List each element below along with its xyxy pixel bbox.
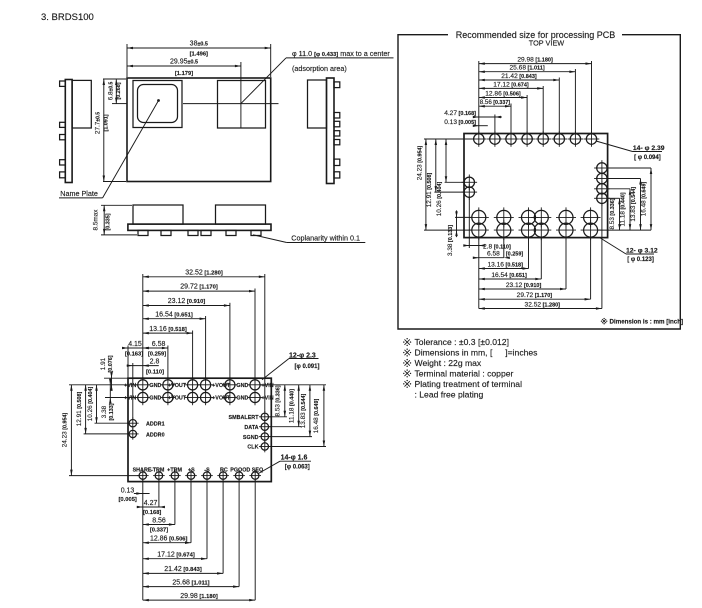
svg-text:SGND: SGND	[243, 435, 259, 441]
svg-text:+VOUT: +VOUT	[212, 396, 231, 402]
svg-text:[0.110]: [0.110]	[146, 370, 164, 376]
svg-text:Name Plate: Name Plate	[60, 189, 98, 198]
svg-text:GND: GND	[236, 383, 248, 389]
svg-text:+VOUT: +VOUT	[212, 383, 231, 389]
svg-text:12.91 [0.508]: 12.91 [0.508]	[426, 173, 433, 208]
svg-text:14-φ 1.6: 14-φ 1.6	[281, 455, 308, 462]
svg-text:(adsorption area): (adsorption area)	[292, 64, 347, 73]
svg-text:Coplanarity within 0.1: Coplanarity within 0.1	[291, 234, 360, 243]
svg-text:: Lead free plating: : Lead free plating	[415, 389, 484, 399]
svg-text:[0.168]: [0.168]	[143, 510, 161, 516]
svg-text:8.5max: 8.5max	[93, 209, 100, 231]
svg-text:PGOOD: PGOOD	[230, 467, 250, 473]
svg-text:+S: +S	[188, 467, 195, 473]
svg-text:10.26 [0.404]: 10.26 [0.404]	[87, 387, 94, 422]
svg-text:-S: -S	[204, 467, 210, 473]
svg-text:10.26 [0.404]: 10.26 [0.404]	[436, 182, 443, 217]
svg-text:1.91: 1.91	[100, 357, 107, 370]
svg-text:16.48 [0.649]: 16.48 [0.649]	[313, 399, 320, 434]
svg-text:RC: RC	[220, 467, 228, 473]
svg-text:25.68 [1.011]: 25.68 [1.011]	[172, 579, 209, 586]
svg-text:+VIN: +VIN	[124, 383, 136, 389]
svg-text:29.95±0.5: 29.95±0.5	[170, 59, 198, 66]
svg-text:8.53 [0.336]: 8.53 [0.336]	[275, 385, 282, 416]
svg-text:12- φ 3.12: 12- φ 3.12	[626, 247, 658, 254]
svg-text:0.13 [0.005]: 0.13 [0.005]	[444, 119, 476, 126]
svg-text:+VIN: +VIN	[124, 396, 136, 402]
svg-text:2.8: 2.8	[150, 358, 160, 365]
svg-text:13.16 [0.518]: 13.16 [0.518]	[487, 262, 523, 269]
svg-text:38±0.5: 38±0.5	[190, 41, 208, 48]
svg-text:23.12 [0.910]: 23.12 [0.910]	[168, 298, 206, 305]
svg-text:4.15: 4.15	[128, 341, 142, 348]
svg-text:3.38 [0.133]: 3.38 [0.133]	[447, 225, 454, 256]
svg-text:4.27 [0.168]: 4.27 [0.168]	[444, 110, 476, 117]
svg-text:4.27: 4.27	[144, 500, 158, 507]
svg-text:29.72 [1.170]: 29.72 [1.170]	[180, 284, 218, 291]
svg-text:SEQ: SEQ	[252, 467, 263, 473]
svg-text:[ φ 0.123]: [ φ 0.123]	[627, 257, 654, 263]
svg-text:SHARE: SHARE	[133, 467, 152, 473]
svg-text:12.86 [0.506]: 12.86 [0.506]	[150, 536, 188, 543]
svg-text:16.54 [0.651]: 16.54 [0.651]	[155, 312, 193, 319]
svg-text:[0.163]: [0.163]	[125, 352, 143, 358]
svg-text:+VOUT: +VOUT	[168, 383, 187, 389]
svg-text:[0.259]: [0.259]	[506, 252, 524, 258]
svg-text:32.52 [1.280]: 32.52 [1.280]	[185, 269, 223, 276]
svg-text:+VOUT: +VOUT	[168, 396, 187, 402]
svg-text:6.58: 6.58	[152, 341, 166, 348]
svg-text:[0.076]: [0.076]	[108, 355, 114, 372]
svg-text:Dimensions in mm, [ ]=inches: Dimensions in mm, [ ]=inches	[415, 348, 538, 358]
svg-text:[ φ 0.094]: [ φ 0.094]	[634, 155, 661, 161]
svg-text:2.8 [0.110]: 2.8 [0.110]	[483, 243, 511, 250]
svg-text:[0.133]: [0.133]	[109, 403, 115, 420]
svg-text:[0.259]: [0.259]	[148, 352, 166, 358]
svg-text:+TRM: +TRM	[167, 467, 182, 473]
svg-text:+VIN: +VIN	[262, 396, 274, 402]
svg-text:13.83 [0.544]: 13.83 [0.544]	[300, 394, 307, 429]
svg-text:[0.268]: [0.268]	[116, 82, 122, 99]
svg-text:8.53 [0.336]: 8.53 [0.336]	[609, 198, 616, 229]
svg-text:12.91 [0.508]: 12.91 [0.508]	[76, 392, 83, 427]
svg-text:[1.179]: [1.179]	[175, 71, 193, 77]
svg-text:SMBALERT: SMBALERT	[229, 415, 260, 421]
svg-text:12.86 [0.506]: 12.86 [0.506]	[485, 91, 521, 98]
svg-text:3.38: 3.38	[101, 405, 108, 418]
svg-text:φ 11.0 [φ 0.433] max to a cent: φ 11.0 [φ 0.433] max to a center	[292, 49, 390, 58]
svg-text:Weight : 22g max: Weight : 22g max	[415, 358, 482, 368]
svg-text:[φ 0.091]: [φ 0.091]	[295, 364, 320, 370]
svg-text:17.12 [0.674]: 17.12 [0.674]	[157, 552, 195, 559]
svg-text:ADDR1: ADDR1	[146, 422, 165, 428]
svg-text:3. BRDS100: 3. BRDS100	[41, 12, 94, 23]
svg-text:14- φ 2.39: 14- φ 2.39	[633, 145, 665, 152]
svg-text:29.72 [1.170]: 29.72 [1.170]	[517, 292, 553, 299]
svg-text:[1.091]: [1.091]	[103, 114, 109, 131]
svg-text:24.23 [0.954]: 24.23 [0.954]	[61, 413, 68, 448]
svg-text:17.12 [0.674]: 17.12 [0.674]	[493, 81, 529, 88]
svg-text:23.12 [0.910]: 23.12 [0.910]	[506, 282, 542, 289]
svg-text:29.98 [1.180]: 29.98 [1.180]	[517, 57, 553, 64]
svg-text:Tolerance : ±0.3 [±0.012]: Tolerance : ±0.3 [±0.012]	[415, 337, 509, 347]
svg-text:21.42 [0.843]: 21.42 [0.843]	[164, 566, 202, 573]
svg-text:32.52 [1.280]: 32.52 [1.280]	[525, 302, 561, 309]
svg-text:[0.337]: [0.337]	[150, 528, 168, 534]
svg-text:24.23 [0.954]: 24.23 [0.954]	[416, 146, 423, 181]
svg-text:+VIN: +VIN	[262, 383, 274, 389]
svg-text:CLK: CLK	[247, 445, 258, 451]
svg-text:[1.496]: [1.496]	[190, 52, 208, 58]
svg-text:[0.005]: [0.005]	[119, 497, 137, 503]
svg-text:GND: GND	[149, 383, 161, 389]
svg-text:DATA: DATA	[244, 425, 258, 431]
svg-text:TOP VIEW: TOP VIEW	[529, 39, 565, 48]
svg-text:[φ 0.063]: [φ 0.063]	[285, 465, 310, 471]
svg-text:GND: GND	[149, 396, 161, 402]
svg-text:16.48 [0.649]: 16.48 [0.649]	[640, 182, 647, 217]
svg-text:13.83 [0.544]: 13.83 [0.544]	[630, 187, 637, 222]
svg-text:16.54 [0.651]: 16.54 [0.651]	[491, 272, 527, 279]
svg-text:21.42 [0.843]: 21.42 [0.843]	[501, 73, 537, 80]
svg-text:Terminal material : copper: Terminal material : copper	[415, 368, 514, 378]
svg-text:11.18 [0.440]: 11.18 [0.440]	[620, 192, 627, 226]
svg-text:25.68 [1.011]: 25.68 [1.011]	[510, 65, 545, 72]
svg-text:8.56 [0.337]: 8.56 [0.337]	[480, 99, 511, 106]
svg-text:8.56: 8.56	[152, 518, 166, 525]
svg-text:13.16 [0.518]: 13.16 [0.518]	[149, 326, 187, 333]
svg-text:Dimension is : mm [inch]: Dimension is : mm [inch]	[610, 319, 684, 326]
svg-text:-TRM: -TRM	[151, 467, 165, 473]
svg-text:6.8±0.5: 6.8±0.5	[108, 81, 115, 100]
svg-text:27.7±0.5: 27.7±0.5	[95, 112, 102, 134]
svg-text:GND: GND	[236, 396, 248, 402]
svg-text:29.98 [1.180]: 29.98 [1.180]	[180, 593, 218, 600]
svg-text:[0.335]: [0.335]	[106, 213, 112, 230]
svg-text:Plating treatment of terminal: Plating treatment of terminal	[415, 379, 523, 389]
svg-text:0.13: 0.13	[121, 487, 135, 494]
svg-text:ADDR0: ADDR0	[146, 432, 165, 438]
svg-text:6.58: 6.58	[487, 251, 500, 258]
svg-text:11.18 [0.440]: 11.18 [0.440]	[289, 389, 296, 423]
